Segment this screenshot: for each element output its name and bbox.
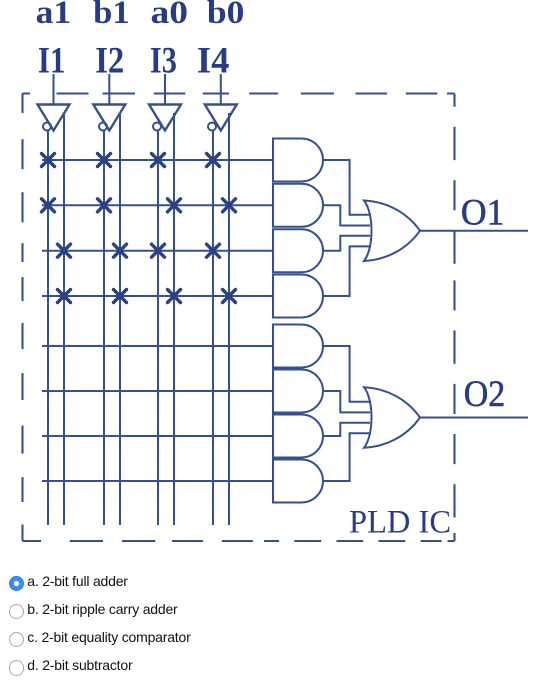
svg-text:b0: b0 <box>207 0 245 31</box>
AND gate 7 <box>273 415 323 458</box>
programmed fuse X marks <box>42 154 236 303</box>
PLD IC dashed boundary box <box>23 94 455 542</box>
output wire O1 <box>420 230 528 232</box>
fuse row1 col L2 <box>98 154 111 167</box>
wire AND2 to OR1 in2 <box>323 205 370 225</box>
svg-text:b1: b1 <box>93 0 130 31</box>
OR gate 2 <box>364 387 420 448</box>
option c radio <box>9 632 329 648</box>
output wire O2 <box>420 417 528 419</box>
input buffer 1 bubble <box>43 123 51 131</box>
svg-text:a1: a1 <box>36 0 71 31</box>
option b radio <box>9 604 329 620</box>
fuse row3 col L3 <box>152 244 165 257</box>
fuse row2 col R3 <box>168 199 181 212</box>
product row 5 <box>42 345 273 347</box>
column line I4 true <box>228 113 230 525</box>
product row 3 <box>42 250 273 252</box>
column line I2 complement <box>103 131 105 526</box>
column line I1 true <box>63 113 65 525</box>
input buffer 4 triangle <box>205 105 237 131</box>
svg-text:O2: O2 <box>464 374 506 415</box>
wire AND5 to OR2 in1 <box>323 346 371 402</box>
input buffer 3 triangle <box>149 105 181 131</box>
option d radio <box>9 660 329 676</box>
svg-text:O1: O1 <box>461 192 505 233</box>
fuse row1 col L3 <box>152 154 165 167</box>
fuse row3 col L4 <box>207 244 220 257</box>
svg-text:PLD IC: PLD IC <box>349 505 451 541</box>
wire AND6 to OR2 in2 <box>323 391 370 412</box>
product row 7 <box>42 435 273 437</box>
input stub I2 <box>108 74 110 105</box>
input buffer 1 triangle <box>38 105 70 131</box>
AND gate 2 <box>273 184 323 227</box>
fuse row2 col L2 <box>98 199 111 212</box>
fuse row2 col L1 <box>42 199 55 212</box>
fuse row2 col R4 <box>223 199 236 212</box>
AND gate 5 <box>273 325 323 368</box>
input stub I3 <box>164 74 166 105</box>
AND gate 3 <box>273 229 323 272</box>
fuse row4 col R4 <box>223 290 236 303</box>
fuse row3 col R2 <box>114 244 127 257</box>
product row 8 <box>42 480 273 482</box>
wire AND3 to OR1 in3 <box>323 236 370 251</box>
fuse row1 col L1 <box>42 154 55 167</box>
option a radio (selected) <box>9 576 329 592</box>
input buffer 3 bubble <box>153 123 161 131</box>
column line I1 complement <box>47 131 49 526</box>
input buffer 2 triangle <box>93 105 125 131</box>
product row 6 <box>42 390 273 392</box>
fuse row1 col L4 <box>207 154 220 167</box>
fuse row4 col R1 <box>58 290 71 303</box>
fuse row4 col R3 <box>168 290 181 303</box>
wire AND7 to OR2 in3 <box>323 423 370 436</box>
product row 4 <box>42 295 273 297</box>
input stub I1 <box>53 74 55 105</box>
wire AND4 to OR1 in4 <box>323 246 371 296</box>
column line I3 complement <box>157 131 159 526</box>
AND gate 1 <box>273 139 323 182</box>
column line I4 complement <box>212 131 214 526</box>
product row 2 <box>42 204 273 206</box>
fuse row3 col R1 <box>58 244 71 257</box>
AND gate 6 <box>273 370 323 413</box>
input buffer 2 bubble <box>99 123 107 131</box>
wire AND8 to OR2 in4 <box>323 433 371 481</box>
wire AND1 to OR1 in1 <box>323 160 371 215</box>
svg-text:a0: a0 <box>151 0 189 31</box>
OR gate 1 <box>364 201 420 262</box>
svg-text:I4: I4 <box>197 41 230 82</box>
column line I2 true <box>119 113 121 525</box>
AND gate 8 <box>273 460 323 503</box>
input buffer 4 bubble <box>208 123 216 131</box>
svg-text:I3: I3 <box>150 41 177 82</box>
product row 1 <box>42 159 273 161</box>
AND gate 4 <box>273 275 323 318</box>
fuse row4 col R2 <box>114 290 127 303</box>
svg-text:I1: I1 <box>38 41 66 82</box>
column line I3 true <box>173 113 175 525</box>
input stub I4 <box>220 74 222 105</box>
